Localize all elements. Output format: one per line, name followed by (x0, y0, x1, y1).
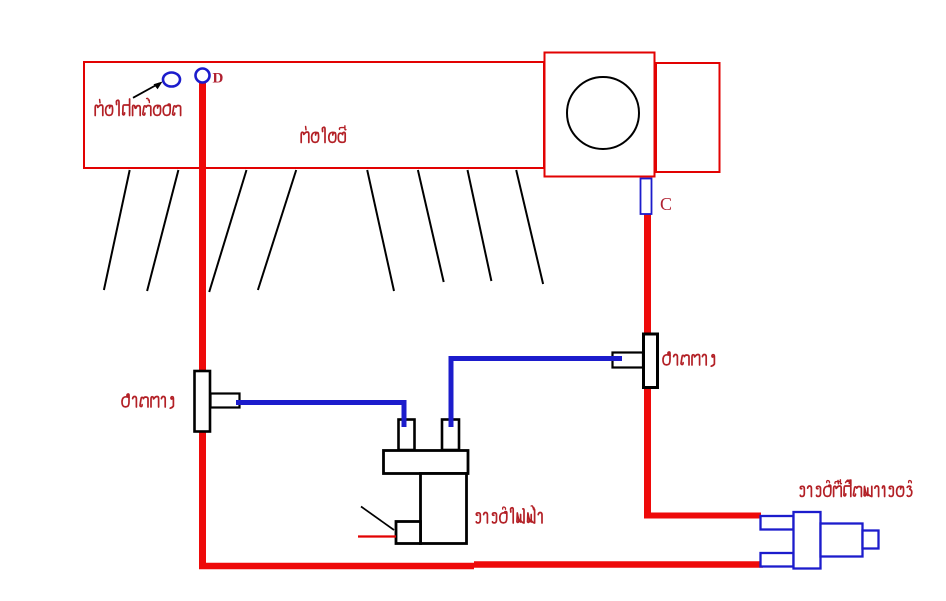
svg-text:D: D (213, 71, 224, 87)
svg-text:C: C (660, 194, 672, 214)
